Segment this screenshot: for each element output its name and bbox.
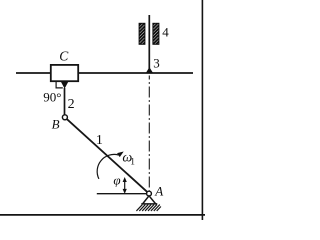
omega1 rotation arrow (arc about A) [97, 152, 124, 179]
pin wedge under slider C [60, 81, 69, 89]
svg-text:4: 4 [162, 25, 169, 40]
svg-text:φ: φ [113, 173, 120, 188]
slider block C [51, 65, 78, 81]
svg-text:1: 1 [96, 133, 103, 148]
frame border right [201, 0, 203, 220]
phi reference line (horizontal through A) [97, 193, 149, 195]
link 2 (C to B) [64, 88, 66, 117]
right-angle marker at C [56, 81, 63, 88]
phi angle arrow (double headed vertical) [123, 177, 127, 194]
svg-text:3: 3 [153, 56, 160, 71]
frame border bottom [0, 214, 205, 216]
centerline from 3 down to A (dash-dot) [148, 76, 150, 191]
ground hatching at A [136, 205, 161, 211]
joint marker 3 (filled triangle on guide line) [146, 67, 153, 73]
svg-text:A: A [154, 184, 163, 199]
svg-text:90°: 90° [43, 90, 61, 105]
svg-text:B: B [52, 117, 60, 132]
guide block 4 left (hatched) [139, 23, 145, 44]
svg-text:1: 1 [130, 158, 135, 168]
joint A (fixed pivot) [147, 191, 152, 196]
guide block 4 right (hatched) [153, 23, 159, 44]
fixed support triangle at A [141, 196, 157, 204]
joint B (revolute) [62, 115, 67, 120]
svg-text:C: C [59, 49, 69, 64]
link 1 (from B to A) [65, 117, 149, 193]
horizontal guide line through slider C and point 3 [16, 72, 193, 74]
svg-text:2: 2 [68, 97, 75, 112]
rod 3 (vertical slider rod) [148, 15, 150, 71]
